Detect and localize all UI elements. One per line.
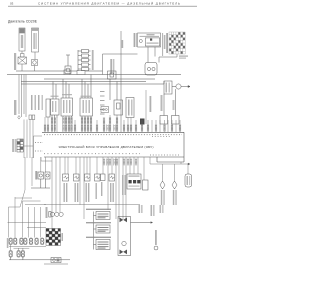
svg-text:СИСТЕМА УПРАВЛЕНИЯ ДВИГАТЕЛЕМ: СИСТЕМА УПРАВЛЕНИЯ ДВИГАТЕЛЕМ — ДИЗЕЛЬНЫ… — [38, 2, 180, 6]
svg-text:03: 03 — [10, 2, 14, 6]
svg-text:ЭЛЕКТРОННЫЙ БЛОК УПРАВЛЕНИЯ ДВ: ЭЛЕКТРОННЫЙ БЛОК УПРАВЛЕНИЯ ДВИГАТЕЛЕМ (… — [59, 145, 154, 149]
svg-text:Двигатель CD20E: Двигатель CD20E — [8, 20, 38, 24]
